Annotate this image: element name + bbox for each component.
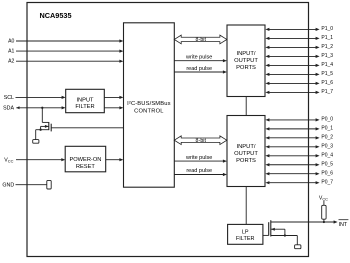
pin P0_6 (265, 170, 333, 176)
pin P0_1 (265, 125, 333, 131)
pin GND (2, 183, 46, 189)
svg-text:INPUT/: INPUT/ (236, 144, 255, 150)
pin P0_3 (265, 143, 333, 149)
svg-text:P0_1: P0_1 (321, 125, 333, 131)
svg-text:P1_0: P1_0 (321, 26, 333, 32)
svg-text:read pulse: read pulse (186, 168, 212, 174)
svg-text:A2: A2 (8, 59, 14, 65)
pin SDA (bidirectional) (3, 106, 66, 112)
pin P1_4 (265, 62, 333, 68)
pin P0_4 (265, 152, 333, 158)
pin P1_3 (265, 53, 333, 59)
svg-text:INT: INT (339, 222, 348, 228)
svg-text:P0_0: P0_0 (321, 117, 333, 123)
svg-text:P0_5: P0_5 (321, 161, 333, 167)
svg-text:NCA9535: NCA9535 (40, 11, 72, 20)
wire write pulse (port 1) (174, 55, 227, 63)
pin A0 (8, 39, 123, 45)
svg-text:8-bit: 8-bit (196, 37, 207, 43)
bus 8-bit (control to port 0) (174, 136, 227, 145)
pin P1_0 (265, 26, 333, 32)
wire INPUT FILTER to control (SDA) (104, 106, 123, 109)
svg-text:P1_5: P1_5 (321, 71, 333, 77)
pin P1_1 (265, 35, 333, 41)
svg-text:P0_2: P0_2 (321, 134, 333, 140)
wire read pulse (port 1) (174, 66, 227, 74)
svg-text:VCC: VCC (319, 195, 328, 201)
block POWER-ON RESET (65, 146, 106, 172)
svg-text:P1_7: P1_7 (321, 89, 333, 95)
block U1 I2C-BUS/SMBus CONTROL (124, 23, 175, 187)
svg-text:FILTER: FILTER (236, 236, 255, 242)
block INPUT/OUTPUT PORTS (port 0) (227, 116, 265, 187)
wire POWER-ON RESET to control (106, 158, 124, 161)
node SDA junction (41, 107, 43, 109)
svg-text:VCC: VCC (4, 157, 13, 163)
svg-text:INPUT: INPUT (76, 98, 94, 104)
svg-text:write pulse: write pulse (185, 55, 212, 61)
outer box: NCA9535 device boundary (27, 3, 309, 257)
bus 8-bit (control to port 1) (174, 35, 227, 44)
block LP FILTER (228, 224, 263, 244)
svg-text:RESET: RESET (76, 164, 95, 170)
svg-text:8-bit: 8-bit (196, 138, 207, 144)
svg-text:write pulse: write pulse (185, 155, 212, 161)
ground pad for Q2 (295, 245, 301, 249)
pin P0_0 (265, 117, 333, 123)
svg-text:I²C-BUS/SMBus: I²C-BUS/SMBus (127, 101, 170, 107)
block INPUT FILTER (66, 89, 105, 112)
svg-text:P1_6: P1_6 (321, 80, 333, 86)
node INT junction (323, 221, 325, 223)
svg-text:P0_4: P0_4 (321, 152, 333, 158)
transistor Q1 (SDA output driver) (36, 108, 124, 140)
svg-text:P1_4: P1_4 (321, 62, 333, 68)
pin P0_7 (265, 179, 333, 185)
svg-text:FILTER: FILTER (75, 104, 94, 110)
svg-text:SDA: SDA (3, 106, 14, 112)
title NCA9535 (40, 11, 72, 20)
pin P1_5 (265, 71, 333, 77)
GND pad symbol (47, 180, 51, 189)
svg-text:P1_3: P1_3 (321, 53, 333, 59)
pin P1_6 (265, 80, 333, 86)
svg-text:A1: A1 (8, 49, 14, 55)
block INPUT/OUTPUT PORTS (port 1) (227, 25, 265, 97)
svg-text:P1_1: P1_1 (321, 35, 333, 41)
pin P1_7 (265, 89, 333, 95)
svg-text:OUTPUT: OUTPUT (234, 58, 258, 64)
svg-text:A0: A0 (8, 39, 14, 45)
svg-text:P0_3: P0_3 (321, 143, 333, 149)
svg-text:GND: GND (2, 183, 14, 189)
pin P0_2 (265, 134, 333, 140)
pin INT (active low) (339, 220, 349, 228)
svg-text:LP: LP (242, 230, 249, 236)
svg-text:OUTPUT: OUTPUT (234, 151, 258, 157)
pin A1 (8, 49, 123, 55)
wire port1 to port0 (245, 97, 247, 116)
power VCC (INT pull-up supply) (319, 195, 328, 201)
svg-text:P0_7: P0_7 (321, 179, 333, 185)
pin P1_2 (265, 44, 333, 50)
svg-text:read pulse: read pulse (186, 66, 212, 72)
wire INT output (271, 220, 338, 223)
svg-text:CONTROL: CONTROL (134, 108, 164, 114)
wire write pulse (port 0) (174, 155, 227, 163)
wire INPUT FILTER to control (SCL) (104, 96, 123, 99)
svg-text:INPUT/: INPUT/ (236, 51, 255, 57)
resistor R1 (INT pull-up) (322, 201, 326, 222)
wire port0 to LP FILTER (245, 187, 247, 225)
pin P0_5 (265, 161, 333, 167)
svg-text:P1_2: P1_2 (321, 44, 333, 50)
svg-text:PORTS: PORTS (236, 158, 256, 164)
pin VCC (4, 157, 65, 163)
svg-text:SCL: SCL (4, 95, 14, 101)
transistor Q2 (INT open-drain driver) (263, 220, 297, 245)
pin SCL (4, 95, 66, 101)
ground pad for Q1 (33, 140, 39, 144)
svg-text:POWER-ON: POWER-ON (69, 157, 101, 163)
svg-text:PORTS: PORTS (236, 65, 256, 71)
wire read pulse (port 0) (174, 168, 227, 176)
svg-text:P0_6: P0_6 (321, 170, 333, 176)
pin A2 (8, 59, 123, 65)
